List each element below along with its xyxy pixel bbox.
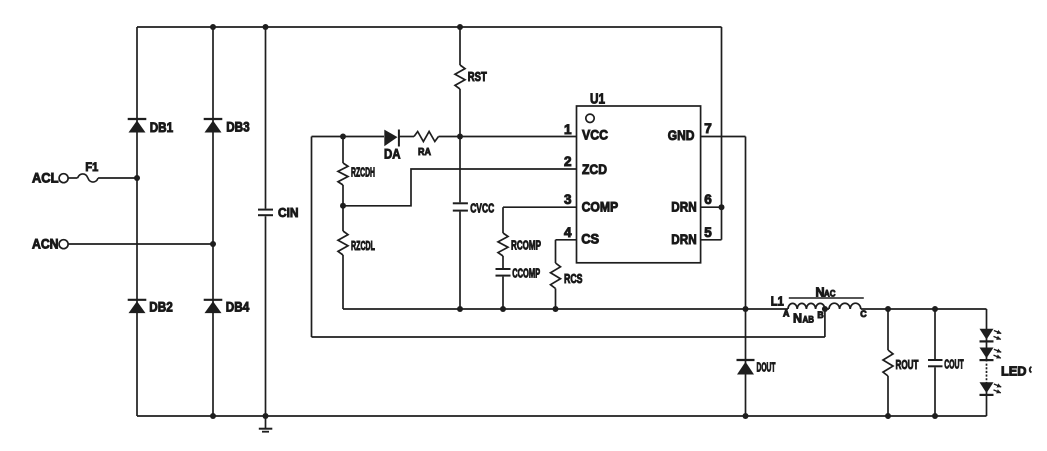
svg-text:DB3: DB3 [226,120,250,135]
svg-text:LED: LED [1001,364,1027,379]
svg-text:DRN: DRN [671,199,696,215]
svg-text:RST: RST [468,69,487,84]
svg-text:COMP: COMP [582,199,619,215]
svg-text:RCS: RCS [564,271,583,286]
svg-text:5: 5 [704,225,712,240]
svg-text:ZCD: ZCD [582,161,607,177]
svg-text:CCOMP: CCOMP [512,266,540,281]
svg-text:RCOMP: RCOMP [511,238,541,253]
svg-text:RZCDH: RZCDH [351,165,375,180]
svg-text:2: 2 [564,154,572,169]
svg-text:N: N [793,312,802,326]
svg-text:A: A [783,309,790,319]
svg-text:7: 7 [704,121,712,136]
svg-text:RZCDL: RZCDL [351,238,375,253]
svg-text:RA: RA [418,146,431,158]
svg-text:B: B [817,310,823,320]
svg-text:AB: AB [803,315,815,326]
svg-text:DA: DA [384,147,401,162]
svg-text:4: 4 [564,225,572,240]
svg-text:CIN: CIN [278,205,299,220]
svg-text:U1: U1 [590,92,605,108]
svg-text:6: 6 [704,192,712,207]
svg-text:CS: CS [581,231,599,247]
svg-text:GND: GND [668,127,695,143]
svg-text:VCC: VCC [582,126,608,142]
svg-text:F1: F1 [85,162,98,174]
svg-text:C: C [860,309,867,319]
svg-text:ACL: ACL [32,171,59,186]
svg-text:L1: L1 [771,294,784,308]
svg-text:CVCC: CVCC [470,201,494,216]
svg-text:DRN: DRN [671,231,696,247]
svg-text:3: 3 [564,192,572,207]
svg-text:DB1: DB1 [150,120,174,135]
svg-text:DB4: DB4 [226,299,250,314]
svg-text:ROUT: ROUT [896,357,919,372]
svg-text:DB2: DB2 [149,299,173,314]
svg-text:COUT: COUT [944,356,964,371]
svg-text:AC: AC [824,289,836,300]
svg-text:DOUT: DOUT [757,360,776,375]
svg-text:1: 1 [564,122,572,137]
svg-text:ACN: ACN [32,237,59,252]
